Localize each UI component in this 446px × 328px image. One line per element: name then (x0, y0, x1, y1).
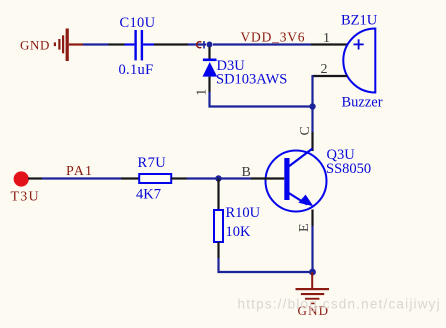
svg-text:BZ1U: BZ1U (341, 12, 378, 28)
wire: capacitor to junction (154, 43, 188, 45)
transistor Q3U (266, 147, 372, 212)
svg-text:C10U: C10U (120, 15, 156, 31)
wire: junction down to R10U (217, 179, 219, 211)
wire: R7U to junction (171, 177, 187, 179)
svg-text:R10U: R10U (226, 205, 261, 221)
buzzer BZ1U (321, 12, 383, 110)
error marker arc at junction (197, 41, 204, 49)
wire: junction to buzzer pin 1 (213, 43, 311, 45)
svg-text:Buzzer: Buzzer (342, 95, 383, 111)
svg-text:4K7: 4K7 (136, 186, 161, 202)
svg-text:E: E (297, 223, 312, 232)
wire: testpoint to R7U (28, 177, 42, 179)
svg-text:10K: 10K (226, 224, 252, 240)
svg-text:2: 2 (321, 62, 328, 77)
svg-text:1: 1 (323, 31, 330, 46)
svg-text:PA1: PA1 (66, 164, 93, 179)
wire: emitter pin stub (311, 210, 313, 227)
wire: diode anode down-right to node (210, 92, 313, 107)
svg-text:0.1uF: 0.1uF (119, 62, 154, 78)
junction node (emitter / R10U / GND) (309, 269, 316, 276)
svg-text:https://blog.csdn.net/caijiwyj: https://blog.csdn.net/caijiwyj (238, 297, 441, 312)
wire: R10U to bottom rail (217, 242, 219, 258)
diode D3U (194, 47, 287, 96)
svg-text:1: 1 (194, 89, 209, 96)
resistor R10U (214, 205, 261, 242)
junction node (diode / buzzer / collector) (309, 103, 315, 109)
wire: buzzer pin 2 to vertical (313, 75, 348, 77)
svg-text:SD103AWS: SD103AWS (216, 71, 287, 87)
svg-text:SS8050: SS8050 (326, 161, 371, 177)
wire: emitter to bottom junction (311, 226, 313, 272)
wire: collector pin stub (311, 132, 313, 151)
junction node (VDD / diode) (207, 42, 213, 48)
wire: pin stub left of capacitor (109, 43, 125, 45)
wire: base pin stub (251, 177, 284, 179)
wire: GND to capacitor (83, 43, 109, 45)
svg-text:R7U: R7U (138, 155, 167, 171)
wire: junction to base (219, 177, 252, 179)
resistor R7U (136, 155, 171, 203)
svg-text:T3U: T3U (11, 189, 40, 204)
ground GND (top left power port) (20, 29, 83, 62)
svg-text:C: C (298, 126, 313, 135)
ground GND (bottom earth symbol) (296, 272, 330, 318)
svg-text:VDD_3V6: VDD_3V6 (241, 30, 306, 45)
testpoint T3U (11, 171, 40, 204)
svg-text:GND: GND (20, 38, 50, 53)
capacitor C10U (119, 15, 156, 78)
junction node (base / R10U) (215, 175, 221, 181)
